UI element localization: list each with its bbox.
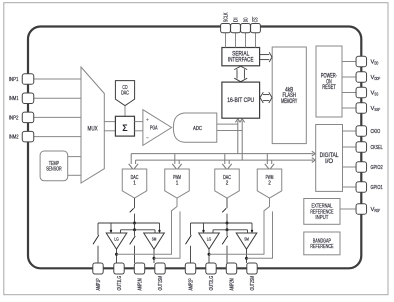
pin DO: [241, 24, 251, 33]
svg-text:INM2: INM2: [9, 135, 19, 141]
svg-text:DAC: DAC: [121, 91, 129, 97]
wire AMP2M pin to inverting line: [226, 230, 228, 236]
svg-text:VREF: VREF: [371, 207, 381, 213]
svg-text:GPIO1: GPIO1: [371, 185, 383, 191]
pin AMP1M: [134, 263, 144, 274]
svg-text:OUT2LG: OUT2LG: [209, 276, 215, 291]
bus trunk to CPU: [237, 121, 239, 154]
pin INM2: [22, 131, 34, 142]
wire LG1 output to OUT1LG pin: [116, 249, 118, 263]
wire PWM2 to switch: [209, 198, 270, 254]
op-amp LG1: [106, 233, 127, 249]
wire LG2 output to OUT2LG pin: [208, 249, 210, 263]
serial interface: [222, 48, 260, 66]
pin VREF: [356, 204, 367, 215]
summer sigma: [115, 116, 134, 136]
svg-text:REFERENCE: REFERENCE: [310, 244, 333, 250]
wire temp sensor out2: [68, 174, 81, 176]
chip outline: [28, 27, 361, 269]
svg-text:2: 2: [226, 181, 229, 187]
svg-text:INM1: INM1: [9, 96, 19, 102]
bus horizontal upper: [131, 153, 313, 155]
pin CS: [251, 24, 261, 33]
node LG2 plus input: [202, 230, 204, 232]
bus stub arrow into DAC2: [224, 154, 226, 164]
svg-text:OUT1SM: OUT1SM: [158, 275, 164, 290]
pin OUT1LG: [114, 263, 124, 274]
svg-text:CKSEL: CKSEL: [371, 145, 383, 151]
wire temp sensor out1: [68, 156, 81, 158]
wire AMP2P pin to noninverting line: [190, 223, 192, 235]
wire POR to VDDF pin: [342, 76, 356, 78]
temp sensor: [40, 151, 68, 181]
switch AMP2P: [186, 235, 192, 244]
node 2B inverting line: [226, 223, 228, 230]
svg-text:1: 1: [176, 181, 179, 187]
op-amp LG2: [199, 233, 220, 249]
ADC: [173, 113, 216, 142]
svg-text:RESET: RESET: [322, 85, 336, 91]
pin VDDF: [356, 72, 367, 83]
svg-text:INP2: INP2: [9, 115, 19, 121]
svg-text:AMP1M: AMP1M: [138, 278, 144, 291]
svg-text:LG: LG: [207, 237, 212, 242]
switch PWM2 to OUT2SM: [247, 211, 273, 258]
svg-text:SM: SM: [244, 237, 249, 242]
bus stub arrow into DAC1: [130, 154, 132, 164]
svg-text:INTERFACE: INTERFACE: [228, 56, 254, 63]
wire POR to VSS pin: [342, 92, 356, 94]
pin VDD: [356, 56, 367, 67]
DAC2: [215, 169, 240, 198]
pin VSSF: [356, 103, 367, 114]
wire digital I/O to CKSEL pin: [343, 146, 356, 148]
wire pin DI to serial interface: [235, 33, 237, 48]
svg-text:2: 2: [268, 181, 271, 187]
pin AMP1P: [93, 263, 103, 274]
pin SCLK: [221, 24, 231, 33]
node 1A noninverting line: [133, 222, 136, 225]
pin INM1: [22, 93, 34, 104]
wire digital I/O to CKIO pin: [343, 130, 356, 132]
switch AMP1M: [130, 236, 136, 245]
hollow arrow serial to flash: [260, 54, 270, 56]
MUX multiplexer: [81, 67, 104, 183]
wire ext ref to VREF pin: [340, 208, 356, 210]
wire INM1 to MUX: [34, 97, 81, 99]
svg-text:OUT1LG: OUT1LG: [117, 276, 123, 291]
wire pin DO to serial interface: [245, 33, 247, 48]
wire POR to VSSF pin: [342, 107, 356, 109]
svg-text:VSSF: VSSF: [371, 106, 381, 112]
pin AMP2M: [226, 263, 236, 274]
svg-text:GPIO2: GPIO2: [371, 165, 383, 171]
wire POR to VDD pin: [342, 61, 356, 63]
pin AMP2P: [185, 263, 195, 274]
power-on reset: [316, 46, 342, 117]
wire summer to PGA (minus): [135, 130, 143, 132]
switch AMP2M: [222, 236, 228, 245]
wire INM2 to MUX: [34, 136, 81, 138]
wire SM2 output to OUT2SM pin: [246, 249, 248, 263]
wire INP2 to MUX: [34, 116, 81, 118]
op-amp SM1: [144, 233, 165, 249]
svg-text:SCLK: SCLK: [224, 12, 230, 22]
pin DI: [231, 24, 241, 33]
digital I/O: [316, 125, 343, 192]
svg-text:VDDF: VDDF: [371, 75, 381, 81]
node LG1 plus input: [110, 230, 112, 232]
wire INP1 to MUX: [34, 78, 81, 80]
svg-text:1: 1: [133, 181, 136, 187]
bandgap reference: [304, 232, 340, 255]
svg-text:CKIO: CKIO: [371, 129, 381, 135]
switch DAC2: [222, 208, 226, 212]
svg-text:DO: DO: [244, 17, 250, 22]
pin OUT2SM: [247, 263, 257, 274]
node SM1 plus input: [158, 230, 160, 232]
svg-text:Σ: Σ: [122, 123, 128, 133]
svg-text:OUT2SM: OUT2SM: [250, 275, 256, 290]
bus horizontal lower: [136, 159, 314, 161]
svg-text:VSS: VSS: [371, 91, 379, 97]
svg-text:INP1: INP1: [9, 77, 19, 83]
svg-text:AMP2M: AMP2M: [230, 278, 236, 291]
wire digital I/O to GPIO2 pin: [343, 166, 356, 168]
pin GPIO1: [356, 182, 367, 193]
node 1B inverting line: [134, 223, 136, 230]
wire ADC out upper: [217, 123, 238, 125]
bus arrows into digital I/O: [312, 151, 315, 156]
svg-text:AMP1P: AMP1P: [96, 278, 102, 290]
wire digital I/O to GPIO1 pin: [343, 186, 356, 188]
wire pin CS to serial interface: [255, 33, 257, 48]
wire MUX to summer (plus): [104, 121, 115, 123]
PGA plus mark: [146, 119, 148, 121]
pin CKSEL: [356, 142, 367, 153]
CS overline: [252, 17, 254, 22]
pin OUT2LG: [206, 263, 216, 274]
svg-text:SENSOR: SENSOR: [46, 167, 62, 173]
bus stub arrow into PWM1: [174, 154, 176, 164]
wire pin SCLK to serial interface: [225, 33, 227, 48]
pin CKIO: [356, 126, 367, 137]
pin INP2: [22, 112, 34, 123]
hollow arrow serial to CPU (bidirectional): [236, 69, 238, 78]
DAC1: [122, 169, 147, 198]
svg-text:16-BIT CPU: 16-BIT CPU: [227, 97, 254, 104]
svg-text:MEMORY: MEMORY: [281, 99, 297, 105]
pin INP1: [22, 74, 34, 85]
CO DAC coarse-offset DAC: [115, 81, 134, 106]
svg-text:ADC: ADC: [193, 126, 202, 132]
pin OUT1SM: [155, 263, 165, 274]
svg-text:I/O: I/O: [325, 159, 333, 165]
svg-text:CS: CS: [254, 17, 260, 22]
hollow arrow CPU to flash (bidirectional): [263, 94, 269, 96]
wire AMP1P pin to noninverting line: [97, 223, 99, 235]
node 2A noninverting line: [226, 222, 229, 225]
wire MUX to summer (minus): [104, 130, 115, 132]
pin VSS: [356, 87, 367, 98]
wire DAC1 to buffers: [134, 198, 136, 208]
switch AMP1P: [93, 235, 99, 244]
wire CO DAC to summer: [124, 106, 126, 117]
4kB flash memory: [272, 47, 306, 144]
svg-text:INPUT: INPUT: [315, 215, 328, 221]
wire summer to PGA (plus): [135, 121, 143, 123]
node SM2 plus input: [251, 230, 253, 232]
svg-text:MUX: MUX: [88, 126, 98, 132]
16-bit CPU: [222, 82, 260, 118]
svg-text:LG: LG: [114, 237, 119, 242]
PGA amplifier: [143, 110, 172, 146]
PWM2: [257, 169, 282, 198]
svg-text:SM: SM: [152, 237, 157, 242]
op-amp SM2: [236, 233, 257, 249]
external reference input: [304, 199, 340, 225]
wire ADC out lower: [217, 130, 242, 132]
wire SM1 output to OUT1SM pin: [153, 249, 155, 263]
svg-text:PGA: PGA: [150, 126, 158, 132]
wire AMP1M pin to inverting line: [134, 230, 136, 236]
switch PWM1 to OUT1SM: [154, 211, 180, 258]
PWM1: [165, 169, 190, 198]
svg-text:DI: DI: [234, 17, 240, 22]
switch DAC1: [130, 208, 134, 212]
wire DAC2 to buffers: [226, 198, 228, 208]
pin GPIO2: [356, 162, 367, 173]
PGA minus mark: [146, 137, 148, 139]
wire PWM1 to switch: [117, 198, 178, 254]
svg-text:AMP2P: AMP2P: [189, 278, 195, 290]
bus stub arrow into PWM2: [266, 154, 268, 164]
svg-text:VDD: VDD: [371, 60, 379, 66]
